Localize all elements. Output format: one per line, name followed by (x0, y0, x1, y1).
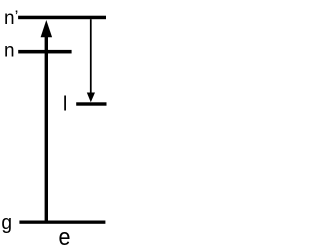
svg-text:l: l (63, 94, 67, 116)
svg-text:g: g (1, 212, 12, 234)
down arrow (n' to l): shaft (90, 19, 92, 93)
svg-text:n: n (4, 40, 15, 61)
up arrow (g to n'): shaft (45, 37, 48, 223)
svg-text:e: e (59, 223, 71, 250)
level line n' (top) (18, 16, 106, 20)
svg-text:n: n (4, 8, 15, 29)
level line n (18, 50, 71, 54)
up arrow head (41, 20, 53, 37)
svg-text:’: ’ (15, 7, 19, 26)
down arrow head (87, 93, 95, 103)
level line g (bottom, ground) (19, 221, 105, 224)
level line l (76, 102, 106, 105)
